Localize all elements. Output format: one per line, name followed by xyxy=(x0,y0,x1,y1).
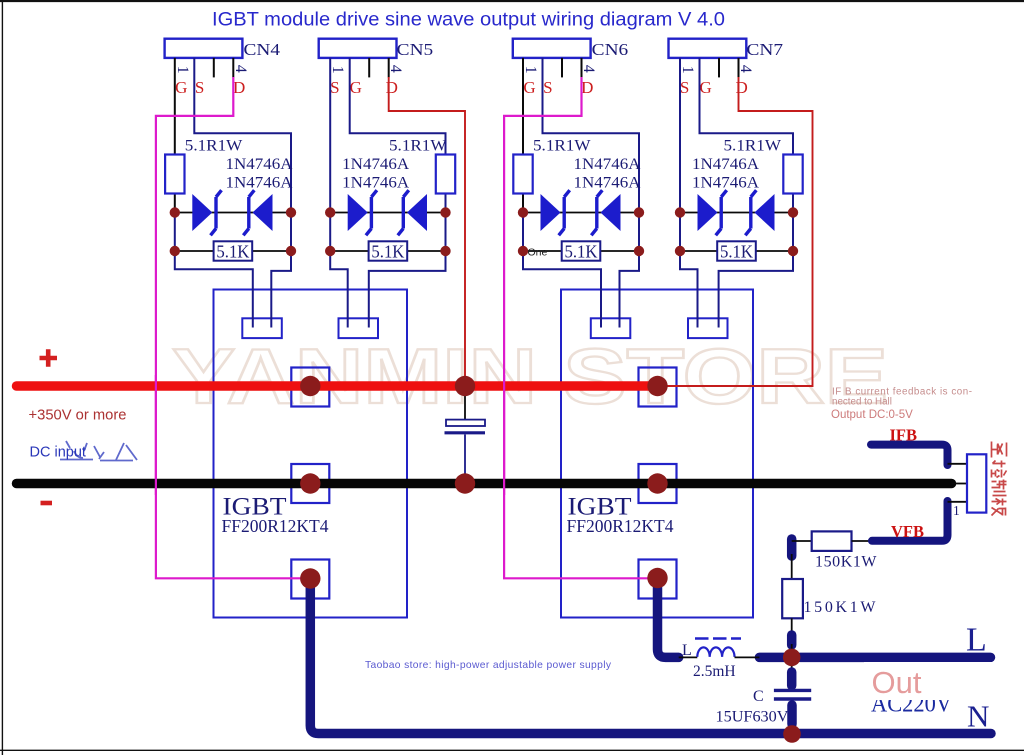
pin labels S G D CN7 xyxy=(680,78,748,97)
wire pin3 stub xyxy=(561,58,563,78)
wire thin lead to L junction xyxy=(791,644,793,652)
wire pin3 stub xyxy=(718,58,720,78)
connector CN5 xyxy=(319,39,434,59)
wire thick IFB xyxy=(871,445,948,465)
label 1N4746A x2 xyxy=(574,156,642,192)
svg-text:1N4746A: 1N4746A xyxy=(226,175,294,192)
svg-text:150K1W: 150K1W xyxy=(815,554,877,571)
svg-text:S: S xyxy=(195,78,204,97)
resistor R5 150K1W horizontal xyxy=(812,531,878,570)
U2 emitter pin box xyxy=(639,464,677,503)
svg-text:YANMIN STORE: YANMIN STORE xyxy=(172,332,888,420)
svg-text:nected to Hall: nected to Hall xyxy=(832,397,892,408)
IGBT module U1 box xyxy=(214,290,408,618)
svg-text:1N4746A: 1N4746A xyxy=(342,175,410,192)
zener diode D7a 1N4746A xyxy=(698,190,727,235)
U2 output pin box xyxy=(639,560,677,599)
pin labels G S D CN4 xyxy=(175,78,245,97)
svg-text:G: G xyxy=(523,78,535,97)
zener diode D5a 1N4746A xyxy=(348,190,377,235)
border frame left xyxy=(1,0,3,755)
wire thick N output from U1 xyxy=(310,579,991,734)
wire cap bottom lead xyxy=(464,435,466,481)
svg-text:G: G xyxy=(350,78,362,97)
svg-text:G: G xyxy=(175,78,187,97)
svg-text:1: 1 xyxy=(174,66,191,74)
svg-text:1: 1 xyxy=(679,66,696,74)
svg-text:DC input: DC input xyxy=(30,445,86,461)
svg-text:CN5: CN5 xyxy=(397,40,434,59)
wire zener row 7 xyxy=(680,212,793,214)
node junction dots 4 xyxy=(170,207,297,256)
connector CN6 xyxy=(513,39,628,59)
wire source S CN7 xyxy=(679,58,681,213)
resistor R4a 5.1R1W xyxy=(165,138,243,194)
wire 5.1K row 4 xyxy=(175,250,291,252)
svg-text:1N4746A: 1N4746A xyxy=(574,156,642,173)
svg-text:D: D xyxy=(581,78,593,97)
svg-text:IGBT module drive sine wave ou: IGBT module drive sine wave output wirin… xyxy=(212,9,725,31)
label 1N4746A x2 xyxy=(342,156,410,192)
wire cap top lead xyxy=(464,389,466,420)
wire thick stub above R vert xyxy=(787,539,797,556)
connector CN4 xyxy=(165,39,280,59)
pin labels S G D CN5 xyxy=(330,78,398,97)
resistor R5b 5.1K xyxy=(369,241,408,261)
wire left leg to module connector xyxy=(523,213,601,328)
zener diode D4b 1N4746A xyxy=(243,190,272,235)
wire right leg to module connector xyxy=(271,213,291,328)
wire gate G CN4 xyxy=(174,58,176,213)
wire gate G CN7 xyxy=(700,58,794,213)
svg-text:CN6: CN6 xyxy=(592,40,629,59)
connector CN7 xyxy=(669,39,784,59)
U1 emitter pin box xyxy=(291,464,329,503)
capacitor C1 plates xyxy=(445,420,486,433)
U1 collector pin box xyxy=(291,368,329,407)
wire zener row 6 xyxy=(523,212,639,214)
node cap bottom xyxy=(455,473,475,493)
svg-text:D: D xyxy=(735,78,747,97)
bus +350V red xyxy=(17,381,658,391)
zener diode D7b 1N4746A xyxy=(745,190,774,235)
wire pin4 stub xyxy=(388,58,390,78)
pin labels G S D CN6 xyxy=(523,78,593,97)
wire zener row 5 xyxy=(330,212,445,214)
svg-text:FF200R12KT4: FF200R12KT4 xyxy=(567,516,674,536)
wire drain D red CN5 xyxy=(389,77,465,382)
svg-text:S: S xyxy=(680,78,689,97)
wire right leg to module connector xyxy=(620,213,640,328)
svg-text:+350V or more: +350V or more xyxy=(29,408,127,424)
node U2 output xyxy=(647,568,667,588)
node junction dots 6 xyxy=(518,207,644,256)
wire pin3 stub xyxy=(368,58,370,78)
svg-text:S: S xyxy=(330,78,339,97)
svg-text:L: L xyxy=(682,642,692,659)
node cap top xyxy=(455,376,475,396)
wire left leg to module connector xyxy=(175,213,253,328)
wire inductor right lead xyxy=(735,656,760,658)
wire R6 bottom lead xyxy=(791,618,793,636)
connector J1 on module xyxy=(242,318,281,338)
svg-text:1: 1 xyxy=(329,66,346,74)
svg-text:5.1R1W: 5.1R1W xyxy=(389,138,447,155)
wire 5.1K row 5 xyxy=(330,250,445,252)
wire thick from U2 to inductor xyxy=(658,578,679,657)
wire control stub 2 xyxy=(952,483,968,485)
zener diode D6a 1N4746A xyxy=(541,190,570,235)
wire cap C2 top lead thin xyxy=(791,663,793,689)
svg-text:S: S xyxy=(543,78,552,97)
svg-text:D: D xyxy=(233,78,245,97)
svg-text:1N4746A: 1N4746A xyxy=(226,156,294,173)
wire drain D magenta CN6 xyxy=(504,77,657,578)
U1 output pin box xyxy=(291,560,329,599)
node N junction r8 xyxy=(783,725,801,743)
wire pin3 stub xyxy=(213,58,215,78)
wire thin corner leads xyxy=(792,541,812,579)
connector J4 on module xyxy=(688,318,728,338)
svg-text:5.1K: 5.1K xyxy=(565,242,598,262)
wire gate G CN6 xyxy=(522,58,524,213)
connector J2 on module xyxy=(339,318,379,338)
svg-text:L: L xyxy=(966,622,987,659)
node U1 collector xyxy=(300,376,320,396)
svg-text:One: One xyxy=(528,247,548,259)
minus symbol xyxy=(41,501,53,506)
zener diode D6b 1N4746A xyxy=(591,190,620,235)
wire 5.1K row 7 xyxy=(680,250,793,252)
wire source S CN5 xyxy=(329,58,331,213)
connector J3 on module xyxy=(591,318,631,338)
label 1N4746A x2 xyxy=(226,156,294,192)
node junction dots 5 xyxy=(325,207,451,256)
wire cap C2 bottom lead xyxy=(791,701,793,729)
svg-text:4: 4 xyxy=(580,65,597,73)
capacitor C2 15UF630V xyxy=(716,688,812,726)
wire drain D magenta CN4 xyxy=(156,77,310,578)
zener diode D4a 1N4746A xyxy=(192,190,221,235)
node L junction r8 xyxy=(783,649,801,667)
svg-text:1N4746A: 1N4746A xyxy=(692,175,760,192)
wire thick stub below L line xyxy=(787,672,797,686)
svg-text:1: 1 xyxy=(953,503,960,518)
node U1 emitter xyxy=(300,473,320,493)
border frame bottom xyxy=(0,749,1024,751)
wire inductor left lead xyxy=(679,656,698,658)
resistor R6b 5.1K xyxy=(562,241,601,261)
svg-text:N: N xyxy=(967,699,989,734)
svg-text:5.1R1W: 5.1R1W xyxy=(185,138,243,155)
svg-text:4: 4 xyxy=(232,65,249,73)
IGBT module U2 box xyxy=(561,290,753,618)
svg-text:2.5mH: 2.5mH xyxy=(693,663,736,680)
wire thick stub to N line xyxy=(787,705,797,724)
svg-text:G: G xyxy=(699,78,711,97)
wire drain D red CN7 xyxy=(662,77,813,386)
svg-text:FF200R12KT4: FF200R12KT4 xyxy=(222,516,329,536)
wire left leg to module connector xyxy=(680,213,698,328)
svg-text:1: 1 xyxy=(522,66,539,74)
svg-text:1N4746A: 1N4746A xyxy=(692,156,760,173)
wire source S CN6 xyxy=(543,58,640,213)
svg-text:5.1R1W: 5.1R1W xyxy=(533,138,591,155)
svg-text:5.1K: 5.1K xyxy=(720,242,753,262)
svg-text:IFB: IFB xyxy=(890,426,918,445)
wire right leg to module connector xyxy=(369,213,446,328)
resistor R6a 5.1R1W xyxy=(513,138,591,194)
wire source S CN4 xyxy=(194,58,291,213)
wire gate G CN5 xyxy=(350,58,446,213)
resistor R7a 5.1R1W xyxy=(724,138,803,194)
white patch over AC220V xyxy=(864,662,992,700)
U2 collector pin box xyxy=(639,368,677,407)
wire thick VFB riser xyxy=(872,501,948,541)
plus symbol xyxy=(40,349,58,367)
node U2 emitter xyxy=(647,473,667,493)
wire pin4 stub xyxy=(738,58,740,78)
bus DC negative black xyxy=(17,479,952,489)
node U1 output xyxy=(300,568,320,588)
svg-text:D: D xyxy=(386,78,398,97)
remnant chinese strokes xyxy=(60,441,137,461)
svg-text:1N4746A: 1N4746A xyxy=(342,156,410,173)
svg-text:5.1K: 5.1K xyxy=(371,242,404,262)
wire zener row 4 xyxy=(175,212,291,214)
wire control stub 1 xyxy=(948,463,968,465)
wire control stub 3 xyxy=(948,501,968,503)
wire left leg to module connector xyxy=(330,213,348,328)
svg-text:CN7: CN7 xyxy=(747,40,784,59)
connector J5 to control board xyxy=(967,454,986,512)
svg-text:C: C xyxy=(753,688,764,705)
svg-text:4: 4 xyxy=(387,65,404,73)
svg-text:5.1K: 5.1K xyxy=(216,242,249,262)
wire pin4 stub xyxy=(581,58,583,78)
label to control board (chinese) xyxy=(992,442,1007,516)
inductor L1 2.5mH xyxy=(682,639,741,681)
svg-text:5.1R1W: 5.1R1W xyxy=(724,138,782,155)
label 1N4746A x2 xyxy=(692,156,760,192)
wire magenta over buses CN6 xyxy=(503,375,505,495)
border frame top xyxy=(0,0,1024,2)
svg-text:4: 4 xyxy=(737,65,754,73)
svg-text:150K1W: 150K1W xyxy=(804,599,877,616)
resistor R4b 5.1K xyxy=(214,241,253,261)
svg-text:Output DC:0-5V: Output DC:0-5V xyxy=(831,409,913,421)
svg-text:15UF630V: 15UF630V xyxy=(716,709,790,726)
wire thick L output line xyxy=(759,653,990,663)
node junction dots 7 xyxy=(675,207,798,256)
wire 5.1K row 6 xyxy=(523,250,639,252)
resistor R5a 5.1R1W xyxy=(389,138,455,194)
resistor R6 150K1W vertical xyxy=(782,579,876,618)
wire thick stub to L line xyxy=(787,635,797,645)
zener diode D5b 1N4746A xyxy=(398,190,427,235)
svg-text:CN4: CN4 xyxy=(244,40,281,59)
wire R5 to VFB xyxy=(852,540,873,542)
svg-text:VFB: VFB xyxy=(891,522,924,541)
svg-text:Out: Out xyxy=(872,665,922,700)
wire magenta over buses CN4 xyxy=(155,375,157,495)
svg-text:1N4746A: 1N4746A xyxy=(574,175,642,192)
wire right leg to module connector xyxy=(719,213,793,328)
resistor R7b 5.1K xyxy=(717,241,756,261)
wire pin4 stub xyxy=(232,58,234,78)
node U2 collector xyxy=(647,376,667,396)
svg-text:Taobao store: high-power adjus: Taobao store: high-power adjustable powe… xyxy=(365,660,612,671)
